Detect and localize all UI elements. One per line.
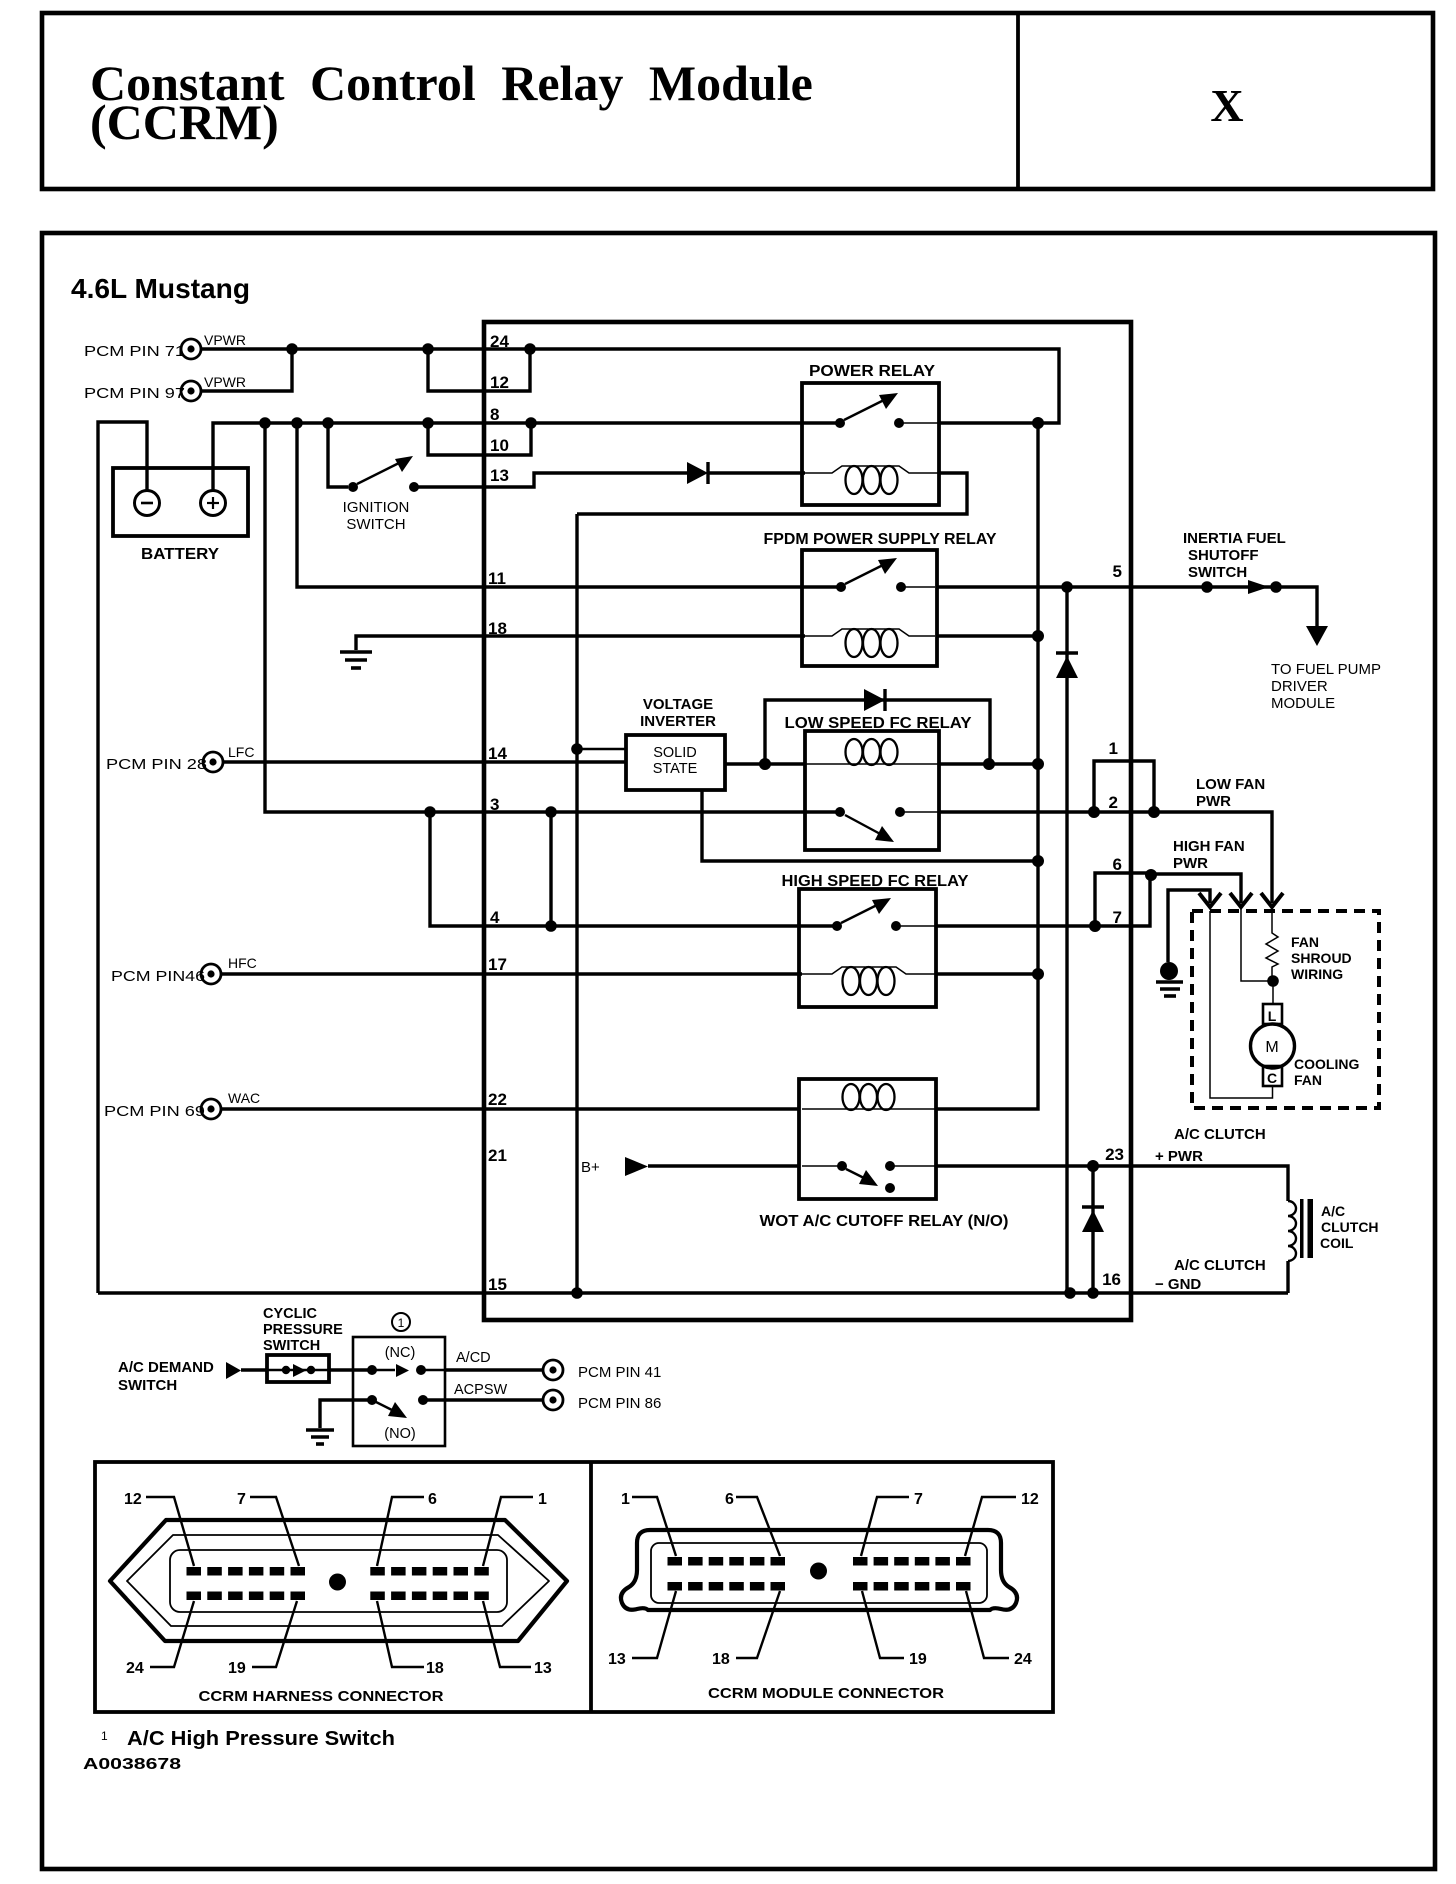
svg-text:13: 13 <box>490 466 509 485</box>
wire ground rail tap to inverter <box>577 748 626 750</box>
battery <box>113 468 248 563</box>
svg-text:A/C CLUTCH: A/C CLUTCH <box>1174 1126 1266 1143</box>
leader 7 <box>250 1497 299 1566</box>
svg-text:1: 1 <box>398 1316 405 1330</box>
wire PCM pin 97 up to VPWR line <box>202 349 292 391</box>
svg-text:FPDM POWER SUPPLY RELAY: FPDM POWER SUPPLY RELAY <box>764 531 998 548</box>
svg-text:6: 6 <box>725 1491 734 1508</box>
leader 1 <box>483 1497 533 1566</box>
svg-text:PRESSURE: PRESSURE <box>263 1322 343 1338</box>
PCM PIN 41 terminal <box>543 1360 661 1381</box>
svg-text:11: 11 <box>488 569 506 588</box>
ground (pressure switch) <box>306 1430 334 1444</box>
leader 7m <box>861 1497 909 1556</box>
wire diode bypass over low speed coil <box>765 700 990 764</box>
svg-text:SWITCH: SWITCH <box>1188 564 1247 581</box>
resistor (fan shroud) <box>1266 911 1278 981</box>
clutch flyback diode rail <box>1091 1166 1094 1293</box>
junction feed/pin10 loop left <box>422 417 434 429</box>
svg-text:MODULE: MODULE <box>1271 695 1335 712</box>
svg-text:(NO): (NO) <box>384 1426 415 1442</box>
svg-text:1: 1 <box>538 1491 547 1508</box>
svg-text:19: 19 <box>909 1651 927 1668</box>
junction pin4/jumper <box>545 920 557 932</box>
svg-text:5: 5 <box>1113 562 1122 581</box>
wire FPDM coil return to VPWR rail <box>937 634 1038 637</box>
PCM PIN 69 terminal <box>104 1099 221 1120</box>
wire ignition to pin 13 <box>418 473 687 487</box>
svg-text:2: 2 <box>1109 793 1118 812</box>
svg-text:12: 12 <box>1021 1491 1039 1508</box>
junction pin2/jumper left <box>1088 806 1100 818</box>
CCRM module box <box>484 322 1131 1320</box>
wire high speed coil return to VPWR rail <box>936 972 1038 975</box>
A/C high pressure switch S2 <box>353 1337 445 1446</box>
svg-text:DRIVER: DRIVER <box>1271 678 1328 695</box>
junction coil return/VPWR rail <box>1032 968 1044 980</box>
svg-text:24: 24 <box>126 1660 144 1677</box>
wire pin 12 loop <box>428 349 530 391</box>
leader 18 <box>377 1601 424 1667</box>
svg-text:B+: B+ <box>581 1159 600 1176</box>
svg-text:13: 13 <box>534 1660 552 1677</box>
cooling fan motor M1 <box>1210 911 1295 1098</box>
junction power relay output/VPWR rail <box>1032 417 1044 429</box>
inertia fuel shutoff switch <box>1183 530 1286 594</box>
svg-text:18: 18 <box>712 1651 730 1668</box>
svg-text:6: 6 <box>1113 855 1122 874</box>
svg-text:(CCRM): (CCRM) <box>90 94 279 150</box>
diode pin 13 line <box>687 462 708 484</box>
svg-text:HIGH FAN: HIGH FAN <box>1173 838 1245 855</box>
wire VPWR rail <box>936 423 1038 1109</box>
junction pin3/jumper-b <box>545 806 557 818</box>
svg-text:A/CD: A/CD <box>456 1350 491 1366</box>
svg-text:6: 6 <box>428 1491 437 1508</box>
junction pin2/jumper right <box>1148 806 1160 818</box>
wire diode to power relay coil <box>708 471 805 474</box>
junction gnd/clutch diode <box>1087 1287 1099 1299</box>
svg-text:14: 14 <box>488 744 507 763</box>
CCRM harness connector J1 <box>110 1520 567 1641</box>
svg-text:A/C DEMAND: A/C DEMAND <box>118 1359 214 1376</box>
FPDM power supply relay U2 <box>764 531 998 666</box>
PCM PIN 71 terminal <box>84 339 201 360</box>
svg-text:SWITCH: SWITCH <box>118 1377 177 1394</box>
harness pin dashes row 1 left <box>187 1567 306 1576</box>
leader 6m <box>736 1497 780 1556</box>
wire pin 2 low fan pwr to shroud <box>939 812 1272 903</box>
wire demand to pressure switch <box>241 1368 267 1371</box>
wire B+ to pin 21 <box>648 1164 799 1167</box>
wire coil return rail down to ground line <box>575 514 578 1293</box>
svg-text:7: 7 <box>1113 908 1122 927</box>
svg-text:4.6L Mustang: 4.6L Mustang <box>71 273 250 304</box>
power relay U1 <box>802 363 939 505</box>
wire pin 11 feed <box>297 423 841 587</box>
svg-text:VOLTAGE: VOLTAGE <box>643 696 713 713</box>
svg-text:WIRING: WIRING <box>1291 966 1343 982</box>
svg-text:23: 23 <box>1105 1145 1124 1164</box>
wire pin 15 ground line <box>98 1291 1288 1294</box>
wire inverter output to low speed coil <box>725 762 805 765</box>
svg-text:(NC): (NC) <box>385 1345 416 1361</box>
svg-text:16: 16 <box>1102 1270 1121 1289</box>
svg-text:HFC: HFC <box>228 955 257 971</box>
svg-text:LOW FAN: LOW FAN <box>1196 776 1265 793</box>
wire pin 5 to inertia switch and fuel pump <box>937 587 1317 626</box>
junction output/diode bypass <box>759 758 771 770</box>
svg-text:PCM PIN 28: PCM PIN 28 <box>106 756 207 773</box>
PCM PIN46 terminal <box>111 964 221 985</box>
arrow to fuel pump driver module <box>1306 626 1328 646</box>
wire high fan into motor node <box>1241 909 1273 981</box>
wire inverter bottom return to VPWR rail <box>702 790 1038 861</box>
leader 6 <box>377 1497 424 1566</box>
svg-text:A/C CLUTCH: A/C CLUTCH <box>1174 1257 1266 1274</box>
svg-text:18: 18 <box>426 1660 444 1677</box>
svg-text:A0038678: A0038678 <box>83 1756 181 1773</box>
wire pin 23 to A/C clutch coil <box>936 1166 1288 1201</box>
svg-text:22: 22 <box>488 1090 507 1109</box>
junction coil return/VPWR rail <box>1032 758 1044 770</box>
svg-text:1: 1 <box>1109 739 1118 758</box>
svg-text:CCRM HARNESS CONNECTOR: CCRM HARNESS CONNECTOR <box>199 1688 444 1705</box>
wire pressure switch to high pressure switch <box>329 1368 368 1371</box>
junction gnd/FPDM diode <box>1064 1287 1076 1299</box>
voltage inverter U3 solid state box <box>626 735 725 790</box>
low speed FC relay U4 <box>785 715 973 850</box>
wire pin 4 line <box>430 812 837 926</box>
svg-text:19: 19 <box>228 1660 246 1677</box>
junction feed/pin11 drop <box>291 417 303 429</box>
svg-text:FAN: FAN <box>1291 934 1319 950</box>
fan connector arrow 3 <box>1261 893 1283 907</box>
A/C demand arrow <box>226 1362 241 1379</box>
svg-text:A/C High Pressure Switch: A/C High Pressure Switch <box>127 1728 395 1750</box>
svg-text:BATTERY: BATTERY <box>141 546 219 563</box>
svg-text:M: M <box>1265 1039 1278 1056</box>
svg-text:SHROUD: SHROUD <box>1291 950 1352 966</box>
module pin dashes row 2 right <box>853 1582 971 1591</box>
junction feed/ignition drop <box>322 417 334 429</box>
module pin dashes row 2 left <box>668 1582 786 1591</box>
svg-text:7: 7 <box>914 1491 923 1508</box>
svg-text:VPWR: VPWR <box>204 374 246 390</box>
PCM PIN 86 terminal <box>543 1390 661 1412</box>
svg-text:VPWR: VPWR <box>204 332 246 348</box>
svg-text:13: 13 <box>608 1651 626 1668</box>
svg-text:SOLID: SOLID <box>653 745 697 761</box>
fan shroud dashed box <box>1192 911 1379 1108</box>
svg-text:ACPSW: ACPSW <box>454 1382 507 1398</box>
svg-text:4: 4 <box>490 908 500 927</box>
svg-text:IGNITION: IGNITION <box>343 499 410 516</box>
junction pin23/clutch diode <box>1087 1160 1099 1172</box>
leader 13 <box>483 1601 531 1667</box>
ground (fan) <box>1156 962 1183 996</box>
wire HFC to high speed coil <box>222 972 802 975</box>
svg-text:SWITCH: SWITCH <box>263 1338 320 1354</box>
junction bypass/coil return <box>983 758 995 770</box>
svg-text:POWER RELAY: POWER RELAY <box>809 363 935 380</box>
wire pin 18 to chassis ground <box>356 636 805 650</box>
wire NO ground tap <box>320 1400 372 1428</box>
diode (low speed coil bypass) <box>864 689 885 711</box>
leader 12m <box>965 1497 1016 1556</box>
diode (A/C clutch) <box>1082 1207 1104 1232</box>
svg-text:24: 24 <box>1014 1651 1032 1668</box>
junction VPWR/pin12 drop <box>422 343 434 355</box>
harness pin dashes row 2 right <box>370 1592 489 1601</box>
svg-text:PCM PIN 69: PCM PIN 69 <box>104 1103 205 1120</box>
wire pin 7 to pin 6 high fan pwr <box>936 874 1150 926</box>
connector jumper pins 1-2 <box>1094 761 1154 812</box>
svg-text:COIL: COIL <box>1320 1235 1354 1251</box>
svg-text:SHUTOFF: SHUTOFF <box>1188 547 1259 564</box>
title divider <box>1016 13 1020 189</box>
wire clutch return to pin 16 <box>1286 1261 1289 1293</box>
module pin dashes row 1 right <box>853 1557 971 1566</box>
junction pin24/pin12 bridge <box>524 343 536 355</box>
svg-text:12: 12 <box>124 1491 142 1508</box>
svg-text:− GND: − GND <box>1155 1276 1201 1293</box>
junction pin3/jumper-a <box>424 806 436 818</box>
svg-text:FAN: FAN <box>1294 1072 1322 1088</box>
leader 12 <box>146 1497 194 1566</box>
wire jumper 3-4 <box>549 812 552 926</box>
wire VPWR pin71 to pin 24 and down to power relay output <box>202 349 1059 423</box>
svg-text:CYCLIC: CYCLIC <box>263 1306 318 1322</box>
WOT A/C cutoff relay U6 <box>760 1079 1009 1230</box>
wire pin 10 loop <box>428 423 531 455</box>
wire ACPSW to PCM pin 86 <box>427 1398 543 1401</box>
wire fan ground branch <box>1168 890 1210 962</box>
junction motor node <box>1267 975 1279 987</box>
svg-text:SWITCH: SWITCH <box>346 516 405 533</box>
wire pin 3 feed <box>265 423 840 812</box>
leader 24 <box>150 1601 194 1667</box>
svg-text:PWR: PWR <box>1196 793 1231 810</box>
svg-text:1: 1 <box>101 1729 108 1743</box>
leader 13m <box>632 1591 676 1658</box>
ground (pin 18) <box>340 652 372 668</box>
svg-text:12: 12 <box>490 373 509 392</box>
svg-text:A/C: A/C <box>1321 1203 1345 1219</box>
wire power relay coil return <box>577 473 967 514</box>
svg-text:PCM PIN 71: PCM PIN 71 <box>84 343 185 360</box>
junction feed/pin3 drop <box>259 417 271 429</box>
svg-text:17: 17 <box>488 955 507 974</box>
svg-text:WOT A/C CUTOFF RELAY (N/O): WOT A/C CUTOFF RELAY (N/O) <box>760 1213 1009 1230</box>
wire LFC to voltage inverter <box>224 760 626 763</box>
junction gnd/coil-return <box>571 1287 583 1299</box>
svg-text:PCM PIN46: PCM PIN46 <box>111 968 205 985</box>
leader 19m <box>862 1591 904 1658</box>
svg-text:TO FUEL PUMP: TO FUEL PUMP <box>1271 661 1381 678</box>
svg-text:15: 15 <box>488 1275 507 1294</box>
svg-text:8: 8 <box>490 405 499 424</box>
wire ignition feed <box>328 423 348 487</box>
wire battery - to ground return loop <box>98 422 147 1293</box>
diode (pin5 rail) <box>1056 653 1078 678</box>
svg-text:STATE: STATE <box>653 761 698 777</box>
connector section divider <box>589 1462 593 1712</box>
svg-text:WAC: WAC <box>228 1090 260 1106</box>
connector section box <box>95 1462 1053 1712</box>
note circled 1 <box>392 1313 410 1331</box>
svg-text:LFC: LFC <box>228 744 254 760</box>
module pin dashes row 1 left <box>668 1557 786 1566</box>
CCRM module connector J2 <box>621 1530 1017 1610</box>
svg-text:1: 1 <box>621 1491 630 1508</box>
wire A/CD to PCM pin 41 <box>445 1368 543 1371</box>
fan connector arrow 2 <box>1230 893 1252 907</box>
title block frame <box>42 13 1433 189</box>
svg-text:X: X <box>1210 80 1243 131</box>
svg-text:PCM PIN 86: PCM PIN 86 <box>578 1395 661 1412</box>
wire battery + feed to pin 8 line <box>213 423 840 491</box>
harness pin dashes row 1 right <box>370 1567 489 1576</box>
svg-text:INVERTER: INVERTER <box>640 713 716 730</box>
leader 18m <box>736 1591 780 1658</box>
junction pin6/high fan wire <box>1145 869 1157 881</box>
PCM PIN 28 terminal <box>106 752 223 773</box>
svg-text:INERTIA FUEL: INERTIA FUEL <box>1183 530 1286 547</box>
junction pin7/jumper left <box>1089 920 1101 932</box>
wire WAC to WOT coil <box>222 1107 799 1110</box>
cyclic pressure switch S1 <box>267 1355 329 1382</box>
junction FPDM coil/VPWR rail <box>1032 630 1044 642</box>
junction pin5/diode rail <box>1061 581 1073 593</box>
junction return/VPWR rail <box>1032 855 1044 867</box>
junction feed/pin10 loop right <box>525 417 537 429</box>
diode rail from pin5 to ground line <box>1065 587 1068 1293</box>
high speed FC relay U5 <box>782 873 970 1007</box>
svg-text:CCRM MODULE CONNECTOR: CCRM MODULE CONNECTOR <box>708 1685 944 1702</box>
svg-text:PCM PIN 41: PCM PIN 41 <box>578 1364 661 1381</box>
svg-text:10: 10 <box>490 436 509 455</box>
harness pin dashes row 2 left <box>187 1592 306 1601</box>
leader 19 <box>252 1601 297 1667</box>
svg-text:PWR: PWR <box>1173 855 1208 872</box>
svg-text:COOLING: COOLING <box>1294 1056 1359 1072</box>
A/C clutch coil L1 <box>1288 1199 1379 1261</box>
connector jumper pins 6-7 <box>1095 873 1150 926</box>
wire high fan pwr to shroud <box>1150 874 1241 903</box>
wire low speed coil return to VPWR rail <box>939 762 1038 765</box>
ignition switch <box>343 456 419 533</box>
svg-text:C: C <box>1267 1070 1277 1086</box>
PCM PIN 97 terminal <box>84 381 201 402</box>
leader 24m <box>966 1591 1009 1658</box>
svg-text:CLUTCH: CLUTCH <box>1321 1219 1379 1235</box>
junction rail/inverter tap <box>571 743 583 755</box>
leader 1m <box>632 1497 676 1556</box>
svg-text:L: L <box>1268 1008 1277 1024</box>
junction VPWR/97 <box>286 343 298 355</box>
label to fuel pump driver module <box>1271 661 1381 712</box>
svg-text:+ PWR: + PWR <box>1155 1148 1203 1165</box>
svg-text:21: 21 <box>488 1146 507 1165</box>
fan connector arrow 1 <box>1199 893 1221 907</box>
B+ arrow <box>625 1157 648 1176</box>
svg-text:PCM PIN 97: PCM PIN 97 <box>84 385 185 402</box>
svg-text:7: 7 <box>237 1491 246 1508</box>
